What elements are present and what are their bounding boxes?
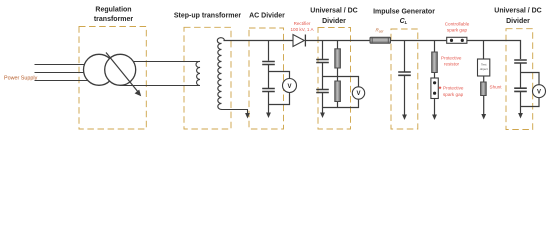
- svg-text:Divider: Divider: [322, 18, 346, 25]
- ground arrow step-up: [245, 113, 250, 119]
- wire V return bottom: [269, 93, 290, 105]
- wire input line 1: [35, 64, 99, 66]
- svg-text:Rser: Rser: [376, 28, 385, 34]
- wire CL stem: [404, 41, 406, 72]
- capacitor Cac2: [262, 89, 275, 92]
- capacitor CL: [398, 72, 411, 75]
- wire rail after Rser: [391, 40, 447, 42]
- svg-text:transformer: transformer: [94, 16, 134, 23]
- wire between: [434, 73, 436, 79]
- ground arrow right divider: [518, 113, 523, 119]
- svg-text:Universal / DC: Universal / DC: [310, 8, 357, 15]
- dashed box AC Divider: [249, 28, 284, 129]
- svg-text:100 kV, 1 A: 100 kV, 1 A: [290, 27, 314, 32]
- wire top rail mid: [305, 40, 370, 42]
- wire input line 3: [35, 80, 99, 82]
- capacitor Cu1: [316, 60, 329, 63]
- title Universal / DC Divider (right): [494, 8, 541, 26]
- title Regulation transformer: [94, 7, 134, 23]
- ground arrow CL: [402, 115, 407, 121]
- svg-text:Power Supply: Power Supply: [4, 75, 38, 81]
- svg-text:spark gap: spark gap: [443, 92, 464, 97]
- wire bottom: [483, 96, 485, 116]
- wire V return: [521, 98, 540, 107]
- spark gap protective: [431, 78, 438, 99]
- wire V tap top: [269, 72, 290, 79]
- svg-text:Shunt: Shunt: [490, 85, 503, 90]
- wire resistor stem: [337, 41, 339, 49]
- wire: [268, 92, 270, 114]
- svg-text:Step-up transformer: Step-up transformer: [174, 13, 242, 20]
- label Controllable spark gap: [445, 22, 470, 33]
- protective branch: [434, 41, 436, 116]
- Universal DC divider left internals: [316, 41, 358, 114]
- wire top rail left: [224, 40, 294, 42]
- wire: [520, 91, 522, 114]
- svg-text:Impulse Generator: Impulse Generator: [373, 9, 435, 16]
- wire rail right: [467, 41, 521, 60]
- wire bottom join: [323, 99, 359, 107]
- wire input line 2: [35, 72, 99, 74]
- svg-text:V: V: [356, 91, 360, 97]
- svg-text:resistor: resistor: [444, 62, 460, 67]
- dashed box Universal DC Divider left: [318, 28, 351, 130]
- svg-text:Protective: Protective: [441, 56, 462, 61]
- ground arrow shunt: [481, 114, 486, 120]
- svg-text:spark gap: spark gap: [447, 28, 468, 33]
- wire bottom: [434, 99, 436, 116]
- shunt branch: [483, 41, 485, 116]
- svg-text:Regulation: Regulation: [95, 7, 131, 14]
- wire: [322, 93, 324, 114]
- svg-text:object: object: [480, 67, 488, 71]
- svg-text:Protective: Protective: [443, 86, 464, 91]
- capacitor Cr1: [514, 60, 527, 63]
- AC divider chain: [262, 41, 289, 114]
- wire stem: [434, 41, 436, 53]
- resistor Rser: [370, 37, 391, 43]
- svg-text:Divider: Divider: [506, 18, 530, 25]
- wire between resistors: [337, 68, 339, 81]
- wire: [404, 75, 406, 115]
- ground arrow AC divider: [266, 113, 271, 119]
- svg-text:Controllable: Controllable: [445, 22, 470, 27]
- svg-text:CL: CL: [400, 18, 408, 25]
- capacitor Cu2: [316, 90, 329, 93]
- svg-text:Test: Test: [481, 63, 487, 67]
- ground arrow universal left: [320, 113, 325, 119]
- CL branch: [398, 41, 411, 116]
- diode rectifier: [293, 35, 305, 47]
- title Universal / DC Divider (left): [310, 8, 357, 26]
- spark gap controllable: [447, 37, 467, 43]
- coil primary step-up: [196, 61, 200, 85]
- svg-text:V: V: [537, 90, 541, 96]
- ground arrow protective: [432, 115, 437, 121]
- dashed box CL capacitor: [391, 29, 418, 129]
- voltmeter V2: [352, 87, 364, 99]
- wire resistor bottom: [337, 102, 339, 108]
- transformer T1 circle left: [84, 54, 115, 85]
- label Rectifier: [290, 21, 314, 32]
- resistor Ru2: [335, 81, 341, 102]
- Universal DC divider right internals: [514, 60, 539, 114]
- wire cap stem: [268, 41, 270, 61]
- wire stem: [483, 41, 485, 60]
- dashed box Regulation transformer: [79, 27, 146, 130]
- voltmeter V1: [283, 79, 297, 93]
- wire V tap: [521, 73, 540, 85]
- resistor protective: [432, 52, 438, 73]
- coil secondary step-up: [217, 38, 224, 110]
- voltmeter V3: [533, 85, 546, 98]
- svg-text:Rectifier: Rectifier: [294, 21, 311, 26]
- resistor shunt: [481, 82, 487, 96]
- wire cap stem: [322, 41, 324, 59]
- label Protective spark gap: [439, 86, 464, 98]
- capacitor Cac1: [262, 62, 275, 65]
- capacitor Cr2: [514, 88, 527, 91]
- wire: [268, 65, 270, 89]
- dashed box Universal DC Divider right: [506, 29, 533, 130]
- transformer T1 circle right: [105, 54, 136, 85]
- wire between: [483, 76, 485, 82]
- arrow variac: [106, 53, 141, 97]
- wire secondary bottom to ground: [222, 110, 248, 115]
- wire: [520, 63, 522, 88]
- wire: [322, 63, 324, 90]
- svg-text:Universal / DC: Universal / DC: [494, 8, 541, 15]
- dashed box Step-up transformer: [184, 27, 231, 129]
- wire output bottom: [120, 85, 200, 87]
- resistor Ru1: [335, 49, 341, 68]
- wire output top: [120, 61, 200, 63]
- svg-text:V: V: [287, 84, 291, 90]
- svg-text:AC Divider: AC Divider: [249, 13, 285, 20]
- test object box: [478, 59, 490, 76]
- wire crossbar to V: [323, 77, 359, 88]
